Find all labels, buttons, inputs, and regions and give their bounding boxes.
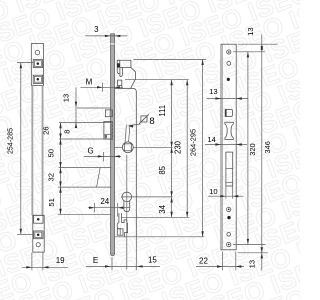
dim 19 (22, 253, 68, 271)
svg-text:22: 22 (199, 256, 208, 265)
right extension cylinder center (121, 196, 173, 198)
dim 254-285 (7, 63, 34, 235)
trapezoid lever (58, 168, 111, 188)
svg-text:13: 13 (246, 27, 255, 35)
left dim column 26 50 32 51 (42, 123, 112, 215)
strike plate lower holes (227, 207, 231, 247)
strike plate top holes (227, 50, 231, 81)
svg-text:10: 10 (209, 187, 217, 196)
dim 3 (faceplate thickness) (85, 25, 127, 37)
svg-text:26: 26 (42, 126, 51, 134)
faceplate slot A (105, 110, 112, 117)
svg-text:50: 50 (47, 149, 56, 157)
svg-text:E: E (93, 256, 98, 265)
dim 13 strike top-left (207, 87, 248, 100)
svg-text:8: 8 (63, 129, 72, 133)
svg-text:15: 15 (148, 256, 157, 265)
cylinder axis line (126, 155, 128, 270)
dim 14 (205, 135, 247, 146)
follower hub (122, 125, 133, 153)
svg-text:13: 13 (62, 94, 71, 102)
dim M (81, 77, 124, 91)
right extension latch center (125, 79, 189, 81)
svg-text:8: 8 (149, 116, 154, 127)
svg-text:M: M (86, 77, 93, 86)
svg-text:320: 320 (248, 143, 257, 155)
svg-text:32: 32 (46, 173, 55, 181)
svg-text:264-295: 264-295 (188, 129, 197, 156)
right extension follower center (133, 146, 172, 148)
left rod top plate (31, 44, 43, 86)
svg-text:111: 111 (158, 105, 167, 117)
label square 8 (127, 114, 154, 127)
latch keeper cutout (225, 109, 233, 117)
right extension latch top (133, 58, 206, 60)
euro cylinder (122, 192, 132, 212)
right extension deadbolt top (121, 216, 190, 218)
svg-text:230: 230 (174, 140, 183, 154)
svg-text:19: 19 (56, 256, 65, 265)
left rod rails (31, 86, 43, 216)
strike plate (221, 44, 236, 250)
svg-text:85: 85 (158, 165, 167, 174)
faceplate bar (111, 34, 115, 256)
bottom dim E and 15 (86, 256, 160, 271)
svg-text:346: 346 (263, 141, 272, 153)
faceplate slot B (104, 122, 113, 141)
svg-text:13: 13 (247, 260, 256, 268)
svg-text:254-285: 254-285 (7, 128, 15, 154)
dim G (84, 146, 121, 161)
dim 24 (88, 197, 130, 217)
svg-text:24: 24 (100, 197, 109, 206)
latch bolt (117, 60, 135, 88)
left rod bottom plate (33, 215, 44, 252)
dim 230 (174, 80, 189, 218)
svg-text:G: G (87, 146, 93, 155)
dim 22 bottom (196, 252, 244, 271)
lock case (115, 88, 204, 270)
dim 10 (208, 186, 244, 199)
deadbolt slot (226, 152, 233, 186)
left dim column 13 & 8 (62, 87, 111, 133)
roller cutout (225, 122, 233, 139)
dim column 111 85 34 (158, 80, 173, 218)
svg-text:51: 51 (47, 198, 56, 206)
dim 320 (247, 52, 257, 245)
svg-text:34: 34 (158, 204, 167, 213)
dim 346 and 13s (246, 27, 272, 270)
deadbolt hook (117, 213, 127, 237)
svg-text:14: 14 (207, 135, 215, 144)
dim 264-295 (188, 59, 203, 236)
right extensions (233, 44, 278, 253)
svg-text:3: 3 (94, 25, 99, 34)
svg-text:13: 13 (209, 87, 217, 96)
